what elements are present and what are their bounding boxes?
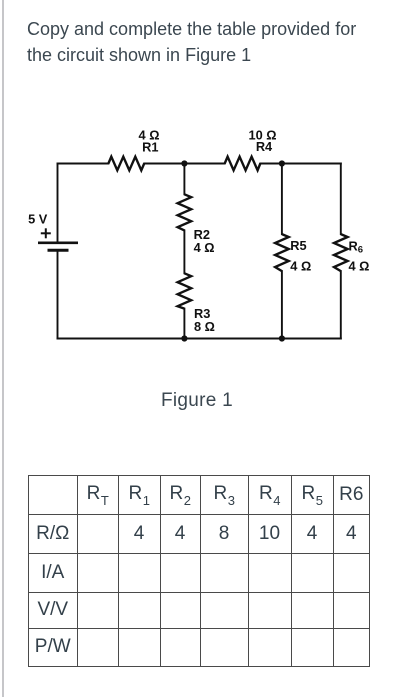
wire: between R2 and R3: [183, 230, 185, 273]
node A junction dot (top of R2 branch): [181, 160, 187, 166]
svg-text:R5: R5: [290, 238, 306, 253]
wire: R5 bottom lead to node D: [281, 271, 283, 338]
battery V1 long plate (positive): [38, 242, 78, 245]
wire: left branch lower (battery bottom lead): [57, 250, 59, 338]
svg-text:5 V: 5 V: [28, 211, 48, 226]
wire: left branch upper (battery top lead): [57, 164, 59, 242]
resistor R5 (4 ohm) zigzag: [275, 234, 289, 271]
svg-text:R1: R1: [142, 140, 158, 155]
svg-text:R4: R4: [256, 139, 273, 154]
wire: bottom rail: [58, 338, 341, 340]
svg-text:8 Ω: 8 Ω: [194, 319, 215, 334]
node D junction dot (bottom of R5 branch): [279, 335, 285, 341]
question text: [27, 16, 372, 69]
wire: R6 top lead (right rail upper): [340, 164, 342, 235]
answer table: [28, 475, 370, 667]
resistor R3 (8 ohm) zigzag: [178, 273, 192, 308]
wire: R3 bottom lead to node C: [183, 309, 185, 339]
wire: top rail middle segment: [144, 163, 225, 165]
wire: R6 bottom lead (right rail lower): [340, 271, 342, 338]
resistor R2 (4 ohm) zigzag: [178, 194, 192, 230]
resistor R6 (4 ohm) zigzag: [334, 234, 348, 271]
svg-text:R6: R6: [349, 239, 364, 256]
svg-text:4 Ω: 4 Ω: [194, 240, 215, 255]
wire: top rail right segment: [260, 163, 341, 165]
wire: R5 top lead from node B: [281, 164, 283, 235]
battery V1 short plate (negative): [48, 249, 69, 252]
resistor R1 (4 ohm) zigzag: [108, 157, 144, 171]
node B junction dot (top of R5 branch): [279, 160, 285, 166]
battery plus sign: [41, 228, 51, 238]
node C junction dot (bottom of R3 branch): [181, 335, 187, 341]
svg-text:4 Ω: 4 Ω: [290, 259, 311, 274]
figure caption: [0, 390, 394, 412]
wire: R2 top lead from node A: [183, 164, 185, 195]
resistor R4 (10 ohm) zigzag: [225, 157, 261, 171]
svg-text:4 Ω: 4 Ω: [349, 259, 370, 274]
page left border line: [2, 0, 4, 697]
wire: top rail left segment: [58, 163, 109, 165]
